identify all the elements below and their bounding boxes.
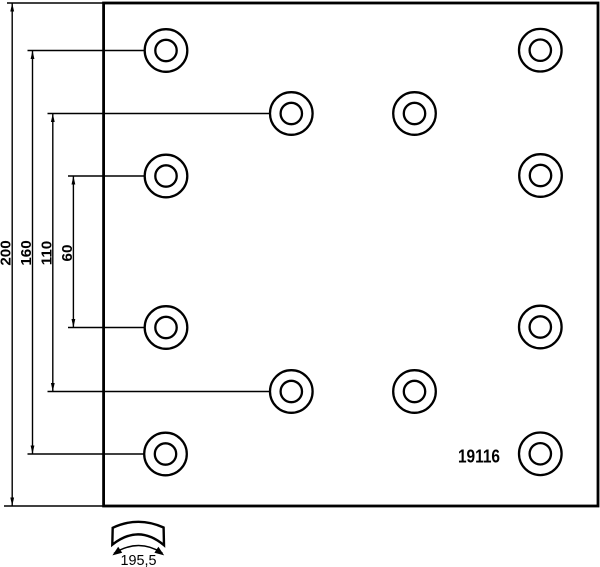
rivet hole F2	[519, 433, 562, 476]
dimension line 110	[52, 114, 54, 392]
svg-text:110: 110	[39, 241, 56, 266]
camber symbol band	[112, 522, 164, 545]
svg-text:19116: 19116	[458, 446, 500, 467]
leader line hole E1	[48, 391, 271, 393]
rivet hole A2	[519, 29, 562, 72]
rivet hole C1	[145, 155, 188, 198]
leader line hole C1	[68, 175, 145, 177]
dimension line 160	[32, 51, 34, 455]
rivet hole F1	[144, 433, 187, 476]
rivet hole B2	[393, 92, 436, 135]
leader line hole A1	[28, 50, 145, 52]
svg-text:160: 160	[18, 240, 35, 265]
svg-text:60: 60	[59, 245, 76, 262]
dimension line 200	[11, 3, 13, 506]
rivet hole E2	[393, 370, 436, 413]
svg-text:195,5: 195,5	[120, 553, 156, 567]
leader line hole F1	[28, 453, 145, 455]
rivet hole D1	[145, 306, 188, 349]
leader line hole D1	[68, 327, 145, 329]
leader line hole B1	[48, 113, 271, 115]
extension line top edge	[7, 2, 104, 4]
rivet hole B1	[270, 92, 313, 135]
rivet hole C2	[519, 154, 562, 197]
dimension line 60	[72, 176, 74, 328]
extension line bottom edge	[4, 505, 104, 507]
svg-text:200: 200	[0, 240, 15, 265]
curved dimension arrow	[114, 546, 163, 554]
brake lining plate outline	[104, 3, 598, 506]
rivet hole A1	[145, 29, 188, 72]
rivet hole D2	[519, 306, 562, 349]
rivet hole E1	[270, 370, 313, 413]
